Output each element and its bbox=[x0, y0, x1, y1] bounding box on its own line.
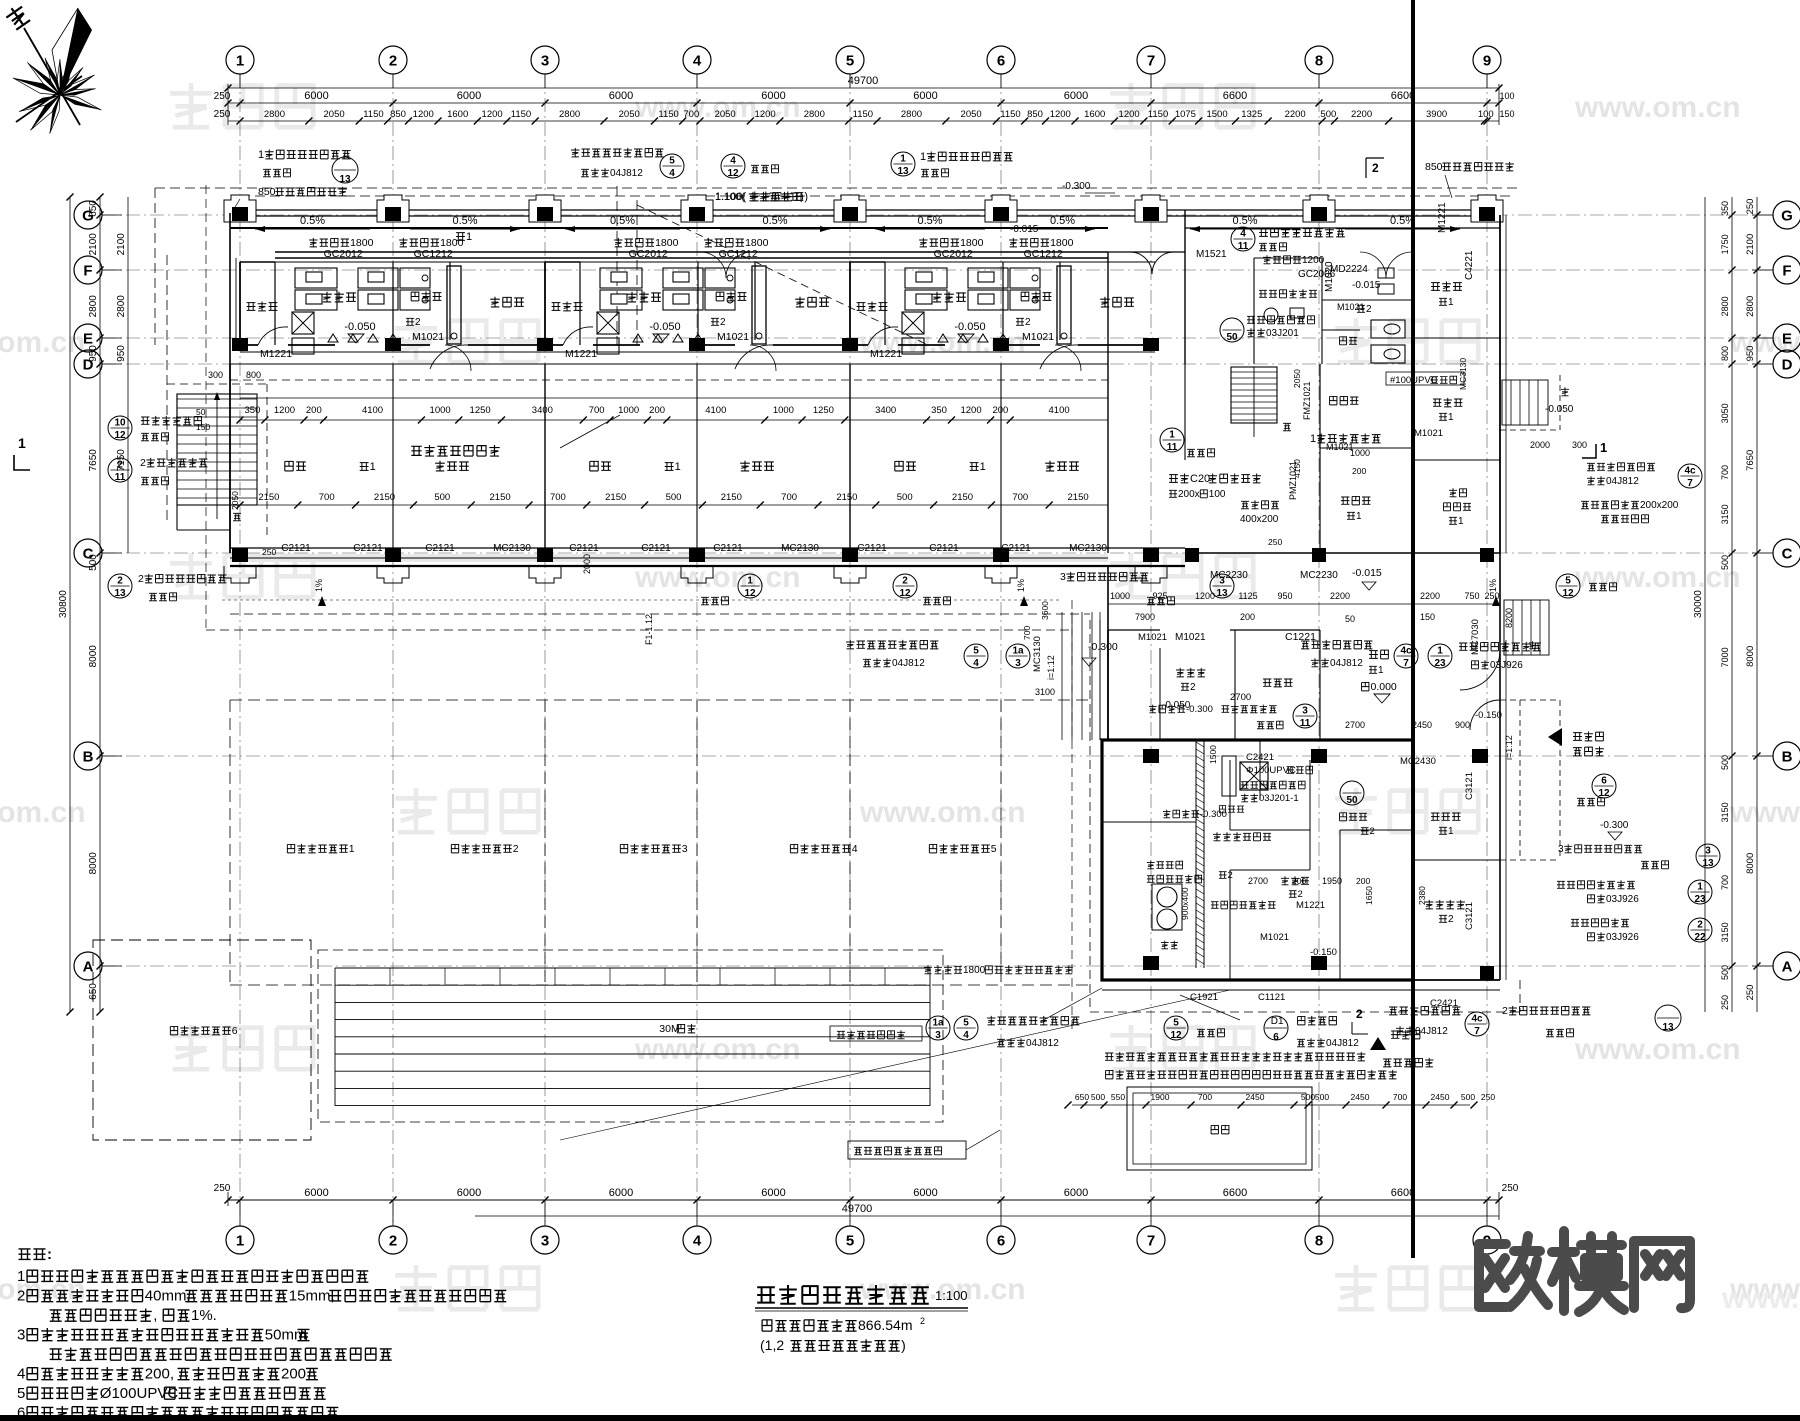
svg-text:www.om.cn: www.om.cn bbox=[634, 1033, 801, 1066]
bedroom/activity rooms bbox=[229, 364, 231, 553]
svg-text:8000: 8000 bbox=[88, 852, 99, 875]
svg-text:D: D bbox=[1782, 356, 1793, 373]
svg-text:100: 100 bbox=[1499, 91, 1514, 101]
svg-text:300: 300 bbox=[208, 370, 223, 380]
svg-text:350: 350 bbox=[245, 405, 261, 416]
svg-text:3: 3 bbox=[1060, 571, 1066, 583]
right lower annotations bbox=[1557, 881, 1565, 888]
corridor top wall bbox=[230, 209, 1500, 211]
svg-text:6000: 6000 bbox=[457, 90, 481, 102]
svg-text:500: 500 bbox=[1720, 965, 1730, 980]
ramp strip left of lower wing bbox=[1061, 612, 1063, 740]
interior dim row lower bbox=[240, 504, 1108, 506]
svg-text:1800: 1800 bbox=[963, 965, 986, 976]
right exterior wall double lines bbox=[1505, 215, 1507, 553]
svg-text:FMZ1021: FMZ1021 bbox=[1302, 381, 1312, 420]
svg-text:700: 700 bbox=[1022, 626, 1032, 640]
leader lines bottom bbox=[1040, 988, 1102, 1022]
svg-text:100: 100 bbox=[1209, 489, 1226, 500]
svg-text:150: 150 bbox=[1420, 612, 1435, 622]
kitchen interior walls bbox=[1195, 740, 1197, 968]
svg-text:5: 5 bbox=[669, 156, 675, 167]
svg-text:13: 13 bbox=[1216, 588, 1228, 599]
svg-text:C2121: C2121 bbox=[929, 543, 959, 554]
svg-text:2800: 2800 bbox=[1745, 296, 1756, 317]
svg-text:5: 5 bbox=[846, 52, 854, 69]
svg-text:1200: 1200 bbox=[1050, 109, 1071, 120]
svg-text:49700: 49700 bbox=[848, 75, 879, 87]
svg-text:C4221: C4221 bbox=[1464, 250, 1475, 280]
svg-text:2380: 2380 bbox=[1417, 886, 1427, 905]
svg-text:950: 950 bbox=[1745, 346, 1756, 362]
svg-text:4: 4 bbox=[1240, 229, 1246, 240]
entry hall labels bbox=[1369, 651, 1378, 659]
svg-text:23: 23 bbox=[1694, 894, 1706, 905]
svg-text:0.5%: 0.5% bbox=[1232, 215, 1257, 227]
svg-text:3: 3 bbox=[1015, 658, 1021, 669]
svg-text:1000: 1000 bbox=[1110, 591, 1130, 601]
svg-text:350: 350 bbox=[1720, 201, 1730, 216]
svg-text:M1021: M1021 bbox=[717, 331, 749, 343]
svg-text:1: 1 bbox=[18, 435, 26, 451]
svg-text:E: E bbox=[1782, 330, 1792, 347]
svg-text:1: 1 bbox=[747, 576, 753, 587]
svg-text:2: 2 bbox=[138, 573, 144, 585]
svg-text:8000: 8000 bbox=[88, 645, 99, 668]
notes block 附注 bbox=[19, 1249, 31, 1260]
svg-text:2: 2 bbox=[1190, 682, 1196, 693]
svg-text:2150: 2150 bbox=[490, 492, 511, 503]
svg-text:2050: 2050 bbox=[715, 109, 736, 120]
svg-text:250: 250 bbox=[214, 1183, 231, 1194]
svg-text:2800: 2800 bbox=[559, 109, 580, 120]
svg-text:0.5%: 0.5% bbox=[452, 215, 477, 227]
svg-text:1750: 1750 bbox=[1720, 234, 1730, 254]
svg-text:GC1212: GC1212 bbox=[1024, 248, 1063, 260]
svg-text:2050: 2050 bbox=[961, 109, 982, 120]
svg-text:4: 4 bbox=[852, 843, 858, 855]
svg-text:C2121: C2121 bbox=[569, 543, 599, 554]
svg-text:2: 2 bbox=[1298, 889, 1303, 900]
svg-text:1%: 1% bbox=[314, 579, 324, 592]
inner corridor lines D-E bbox=[230, 363, 1108, 365]
svg-text:3150: 3150 bbox=[1720, 504, 1730, 524]
svg-text:04J812: 04J812 bbox=[1606, 476, 1639, 487]
svg-text:2: 2 bbox=[902, 576, 908, 587]
svg-text:7: 7 bbox=[1687, 478, 1693, 489]
svg-text:5: 5 bbox=[17, 1385, 25, 1402]
svg-text:C2421: C2421 bbox=[1246, 752, 1274, 763]
porch steps right wing east bbox=[1503, 600, 1505, 655]
svg-text:1: 1 bbox=[1448, 826, 1454, 837]
svg-text:3: 3 bbox=[1302, 706, 1308, 717]
svg-text:1200: 1200 bbox=[755, 109, 776, 120]
concrete sill annotation bbox=[1169, 475, 1178, 483]
svg-text:1200: 1200 bbox=[274, 405, 295, 416]
svg-text:9: 9 bbox=[1483, 52, 1491, 69]
svg-text:M1021: M1021 bbox=[1414, 428, 1443, 439]
svg-text:12: 12 bbox=[1598, 788, 1610, 799]
svg-text:200x200: 200x200 bbox=[1640, 500, 1679, 511]
svg-text:700: 700 bbox=[1720, 465, 1730, 480]
entrance door arcs right wall bbox=[1460, 650, 1500, 690]
hall dim row bbox=[1108, 603, 1500, 605]
svg-text:1200: 1200 bbox=[482, 109, 503, 120]
svg-text:2050: 2050 bbox=[1292, 369, 1302, 388]
svg-text:200: 200 bbox=[1352, 466, 1366, 476]
svg-text:04J812: 04J812 bbox=[1026, 1038, 1059, 1049]
svg-text:700: 700 bbox=[1012, 492, 1028, 503]
big dashed play area bottom-left bbox=[93, 940, 311, 1140]
door arcs on corridor openings bbox=[445, 345, 471, 371]
svg-text:2: 2 bbox=[1025, 317, 1031, 328]
svg-text:4: 4 bbox=[973, 658, 979, 669]
svg-text:6: 6 bbox=[1273, 1032, 1279, 1043]
svg-text:8200: 8200 bbox=[1504, 608, 1514, 628]
svg-text:-0.150: -0.150 bbox=[1475, 710, 1502, 721]
svg-text:MC2130: MC2130 bbox=[493, 543, 531, 554]
svg-text:2150: 2150 bbox=[836, 492, 857, 503]
svg-text:-0.015: -0.015 bbox=[1352, 280, 1381, 291]
svg-text:700: 700 bbox=[1393, 1092, 1407, 1102]
svg-text:1a: 1a bbox=[932, 1018, 944, 1029]
interior staircase grid 7-8 bbox=[1231, 367, 1277, 423]
svg-text:2: 2 bbox=[720, 317, 726, 328]
left dimension columns bbox=[69, 197, 71, 1012]
svg-text:C1121: C1121 bbox=[1258, 992, 1285, 1003]
kitchen block bold outline bbox=[1102, 740, 1413, 980]
svg-text:500: 500 bbox=[666, 492, 682, 503]
svg-text:): ) bbox=[800, 191, 804, 203]
svg-text:2: 2 bbox=[140, 457, 146, 469]
sand pit bbox=[1127, 1087, 1312, 1170]
svg-text:500: 500 bbox=[1315, 1092, 1329, 1102]
ramp right side dashed bbox=[1500, 699, 1560, 701]
svg-text:2100: 2100 bbox=[1745, 234, 1756, 255]
svg-text:M1021: M1021 bbox=[412, 331, 444, 343]
svg-text:1: 1 bbox=[980, 461, 986, 473]
svg-text:500: 500 bbox=[1320, 109, 1336, 120]
svg-text:40mm,: 40mm, bbox=[145, 1288, 191, 1305]
svg-text:200: 200 bbox=[306, 405, 322, 416]
svg-text:2450: 2450 bbox=[1412, 720, 1432, 730]
svg-text:3050: 3050 bbox=[1720, 403, 1730, 423]
bedroom labels bbox=[285, 461, 293, 471]
svg-text:1: 1 bbox=[900, 154, 906, 165]
svg-text:-0.300: -0.300 bbox=[1200, 809, 1227, 820]
svg-text:2450: 2450 bbox=[1246, 1092, 1265, 1102]
svg-text:4: 4 bbox=[963, 1030, 969, 1041]
svg-text:200x: 200x bbox=[1178, 489, 1200, 500]
svg-text:03J926: 03J926 bbox=[1606, 932, 1639, 943]
svg-text:1150: 1150 bbox=[1148, 109, 1168, 120]
svg-text:1200: 1200 bbox=[960, 405, 981, 416]
svg-text:-0.015: -0.015 bbox=[1352, 567, 1382, 579]
svg-text:2: 2 bbox=[1502, 1005, 1508, 1017]
svg-text:6: 6 bbox=[1601, 776, 1607, 787]
svg-text:700: 700 bbox=[781, 492, 797, 503]
svg-text:1: 1 bbox=[370, 461, 376, 473]
svg-text:M1021: M1021 bbox=[1022, 331, 1054, 343]
svg-text:550: 550 bbox=[1111, 1092, 1125, 1102]
svg-text:5: 5 bbox=[963, 1018, 969, 1029]
svg-text:30800: 30800 bbox=[58, 590, 69, 618]
watermark tiles bbox=[170, 83, 313, 127]
svg-text:1: 1 bbox=[920, 151, 926, 163]
svg-text:150: 150 bbox=[1499, 109, 1514, 119]
svg-text:M1021: M1021 bbox=[1138, 632, 1167, 643]
svg-text:250: 250 bbox=[214, 91, 231, 102]
svg-text:200: 200 bbox=[992, 405, 1008, 416]
logo 欧模网 (hand-drawn strokes) bbox=[1479, 1231, 1690, 1312]
svg-text:1200: 1200 bbox=[413, 109, 434, 120]
svg-text:C: C bbox=[1782, 545, 1793, 562]
track surround dashed bbox=[318, 950, 943, 1122]
svg-text:7: 7 bbox=[1474, 1026, 1480, 1037]
svg-text:03J201-1: 03J201-1 bbox=[1259, 793, 1299, 804]
svg-text:6: 6 bbox=[17, 1405, 25, 1421]
svg-text:www.om.cn: www.om.cn bbox=[1574, 91, 1741, 124]
svg-text:950: 950 bbox=[116, 345, 127, 362]
svg-text:1%.: 1%. bbox=[191, 1307, 217, 1324]
right wing C line wall bbox=[1108, 547, 1185, 549]
window labels row bbox=[309, 238, 317, 247]
svg-text:650: 650 bbox=[1075, 1092, 1089, 1102]
svg-text:4: 4 bbox=[730, 156, 736, 167]
sandpit dim row bbox=[1072, 1104, 1470, 1106]
svg-text:6: 6 bbox=[997, 52, 1005, 69]
svg-text:200: 200 bbox=[649, 405, 665, 416]
svg-text:2: 2 bbox=[1448, 914, 1454, 925]
svg-text:700: 700 bbox=[550, 492, 566, 503]
svg-text:2800: 2800 bbox=[264, 109, 285, 120]
svg-text:500: 500 bbox=[88, 554, 99, 571]
staff toilet block grid7-8 bbox=[1108, 251, 1185, 253]
svg-text:250: 250 bbox=[1502, 1183, 1519, 1194]
svg-text:4c: 4c bbox=[1471, 1014, 1483, 1025]
svg-text:2050: 2050 bbox=[230, 491, 240, 510]
svg-text:3: 3 bbox=[1558, 844, 1564, 855]
svg-text:2: 2 bbox=[1370, 826, 1375, 837]
svg-text:2: 2 bbox=[415, 317, 421, 328]
svg-text:11: 11 bbox=[1167, 442, 1178, 453]
wing bottom wall bbox=[1102, 979, 1500, 981]
svg-text:500: 500 bbox=[1720, 755, 1730, 770]
svg-text:1200: 1200 bbox=[1119, 109, 1140, 120]
svg-text:C1221: C1221 bbox=[1285, 631, 1316, 643]
svg-text:2150: 2150 bbox=[952, 492, 973, 503]
svg-text:MC3130: MC3130 bbox=[1032, 636, 1043, 672]
svg-text:2200: 2200 bbox=[1420, 591, 1440, 601]
svg-text:5: 5 bbox=[1565, 576, 1571, 587]
svg-text:2: 2 bbox=[1372, 161, 1379, 175]
svg-text:0.5%: 0.5% bbox=[762, 215, 787, 227]
svg-text:700: 700 bbox=[589, 405, 605, 416]
svg-text:30000: 30000 bbox=[1693, 590, 1704, 618]
svg-text:7: 7 bbox=[1403, 658, 1409, 669]
svg-text:500: 500 bbox=[1461, 1092, 1475, 1102]
svg-text:3: 3 bbox=[935, 1030, 941, 1041]
svg-text:GC2012: GC2012 bbox=[324, 248, 363, 260]
svg-text:1: 1 bbox=[1310, 433, 1316, 445]
svg-text:250: 250 bbox=[1720, 995, 1730, 1010]
svg-text:2150: 2150 bbox=[721, 492, 742, 503]
svg-text:(1,2: (1,2 bbox=[760, 1337, 784, 1353]
svg-text:1200: 1200 bbox=[1302, 255, 1325, 266]
svg-text:1: 1 bbox=[236, 52, 244, 69]
svg-text:2800: 2800 bbox=[1720, 296, 1730, 316]
svg-text:850: 850 bbox=[1425, 161, 1443, 173]
svg-text:900: 900 bbox=[1455, 720, 1470, 730]
svg-text:500: 500 bbox=[1720, 555, 1730, 570]
svg-text:850: 850 bbox=[390, 109, 406, 120]
svg-text:2800: 2800 bbox=[804, 109, 825, 120]
svg-text:13: 13 bbox=[1702, 858, 1714, 869]
svg-text:C2121: C2121 bbox=[713, 543, 743, 554]
svg-text:www.om.cn: www.om.cn bbox=[0, 796, 86, 829]
svg-text:49700: 49700 bbox=[842, 1203, 873, 1215]
svg-text:2: 2 bbox=[1228, 870, 1233, 881]
svg-text:6000: 6000 bbox=[913, 90, 937, 102]
svg-text:4100: 4100 bbox=[362, 405, 383, 416]
svg-text:GC1212: GC1212 bbox=[414, 248, 453, 260]
svg-text:2450: 2450 bbox=[1431, 1092, 1450, 1102]
svg-text:2150: 2150 bbox=[374, 492, 395, 503]
svg-text:1150: 1150 bbox=[511, 109, 531, 120]
svg-text:-0.050: -0.050 bbox=[1162, 700, 1191, 711]
svg-text:A: A bbox=[83, 958, 94, 975]
svg-text:8: 8 bbox=[1315, 1232, 1323, 1249]
svg-text:MC2430: MC2430 bbox=[1400, 756, 1436, 767]
svg-text:200,: 200, bbox=[145, 1366, 174, 1383]
bottom border bar bbox=[0, 1415, 1800, 1421]
svg-text:04J812: 04J812 bbox=[1326, 1038, 1359, 1049]
svg-text:A: A bbox=[1782, 958, 1793, 975]
svg-text:3150: 3150 bbox=[1720, 802, 1730, 822]
svg-text:6000: 6000 bbox=[609, 1187, 633, 1199]
svg-text:1: 1 bbox=[466, 231, 472, 243]
svg-text:350: 350 bbox=[931, 405, 947, 416]
svg-text:650: 650 bbox=[88, 200, 99, 217]
svg-text:2: 2 bbox=[117, 576, 123, 587]
svg-text:2050: 2050 bbox=[324, 109, 345, 120]
svg-text:i=1:12: i=1:12 bbox=[1046, 655, 1056, 680]
svg-text:www.om.cn: www.om.cn bbox=[1574, 1033, 1741, 1066]
svg-text:,: , bbox=[153, 1307, 157, 1324]
svg-text:C2121: C2121 bbox=[857, 543, 887, 554]
svg-text:200: 200 bbox=[1356, 876, 1370, 886]
svg-text:13: 13 bbox=[114, 588, 126, 599]
svg-text:www.om.cn: www.om.cn bbox=[0, 326, 86, 359]
svg-text:100: 100 bbox=[1478, 109, 1494, 120]
svg-text:5: 5 bbox=[973, 646, 979, 657]
kindergarten entrance arrow bbox=[1548, 728, 1562, 746]
svg-text:1: 1 bbox=[349, 843, 355, 855]
svg-text:B: B bbox=[83, 748, 94, 765]
svg-text:M1221: M1221 bbox=[565, 348, 597, 360]
svg-text:7: 7 bbox=[1147, 52, 1155, 69]
svg-text:6: 6 bbox=[997, 1232, 1005, 1249]
svg-text:1: 1 bbox=[258, 149, 264, 161]
svg-text:1%: 1% bbox=[1016, 579, 1026, 592]
annotations under C wall bbox=[108, 574, 132, 598]
svg-text:1600: 1600 bbox=[1084, 109, 1105, 120]
svg-text:7650: 7650 bbox=[1745, 450, 1756, 471]
svg-text:2800: 2800 bbox=[901, 109, 922, 120]
svg-text:MC2230: MC2230 bbox=[1300, 570, 1338, 581]
svg-text:04J812: 04J812 bbox=[1330, 658, 1363, 669]
svg-text:250: 250 bbox=[1745, 199, 1756, 215]
svg-text:2: 2 bbox=[117, 460, 123, 471]
svg-text:3600: 3600 bbox=[1040, 601, 1050, 620]
svg-text:M1221: M1221 bbox=[1437, 202, 1448, 233]
svg-text:6: 6 bbox=[232, 1025, 238, 1037]
dumbwaiter shaft bbox=[1240, 762, 1268, 790]
svg-text:1650: 1650 bbox=[1364, 886, 1374, 905]
svg-text:6000: 6000 bbox=[1064, 1187, 1088, 1199]
svg-text:M1021: M1021 bbox=[1260, 932, 1289, 943]
svg-text:250: 250 bbox=[1268, 537, 1282, 547]
svg-text:250: 250 bbox=[214, 109, 231, 120]
kitchen columns bbox=[1143, 749, 1159, 763]
svg-text:250: 250 bbox=[1481, 1092, 1495, 1102]
svg-text:4100: 4100 bbox=[705, 405, 726, 416]
svg-text:1a: 1a bbox=[1012, 646, 1024, 657]
right side steps/ramp D-C bbox=[1501, 380, 1503, 425]
svg-text:2800: 2800 bbox=[88, 295, 99, 318]
svg-text:2: 2 bbox=[17, 1288, 25, 1305]
svg-text:7900: 7900 bbox=[1135, 612, 1155, 622]
heavy vertical section line bbox=[1411, 0, 1415, 1258]
svg-text:1600: 1600 bbox=[447, 109, 468, 120]
svg-text:C2121: C2121 bbox=[281, 543, 311, 554]
svg-text:F: F bbox=[1782, 262, 1791, 279]
svg-text:2100: 2100 bbox=[116, 233, 127, 256]
svg-text:6600: 6600 bbox=[1223, 1187, 1247, 1199]
svg-text:11: 11 bbox=[1300, 718, 1311, 729]
svg-text:7650: 7650 bbox=[88, 449, 99, 472]
right grid bubbles G-A bbox=[1773, 201, 1800, 229]
svg-text:5: 5 bbox=[846, 1232, 854, 1249]
svg-text:1150: 1150 bbox=[363, 109, 383, 120]
svg-text:866.54m: 866.54m bbox=[858, 1317, 912, 1333]
svg-text:1: 1 bbox=[1356, 511, 1362, 522]
svg-text:50: 50 bbox=[1346, 795, 1358, 806]
right rooms of wing bbox=[1431, 813, 1439, 820]
svg-text:500: 500 bbox=[897, 492, 913, 503]
svg-text:4: 4 bbox=[669, 168, 675, 179]
svg-text:50: 50 bbox=[196, 407, 206, 417]
hall walls bbox=[1108, 629, 1160, 631]
playground dashed partitions bbox=[230, 699, 1090, 701]
svg-text:2150: 2150 bbox=[258, 492, 279, 503]
svg-text:2150: 2150 bbox=[605, 492, 626, 503]
svg-text:3400: 3400 bbox=[875, 405, 896, 416]
svg-text:750: 750 bbox=[1464, 591, 1479, 601]
svg-text:0.5%: 0.5% bbox=[917, 215, 942, 227]
svg-text:3400: 3400 bbox=[532, 405, 553, 416]
unit room labels bbox=[247, 303, 256, 311]
svg-text:22: 22 bbox=[1694, 932, 1706, 943]
bottom grid bubbles 1-9 bbox=[226, 1226, 254, 1254]
svg-text:GC2012: GC2012 bbox=[934, 248, 973, 260]
svg-text:-0.300: -0.300 bbox=[1088, 641, 1118, 653]
svg-text:1150: 1150 bbox=[1000, 109, 1020, 120]
staff toilet annotation bbox=[1231, 227, 1255, 251]
svg-text:2000: 2000 bbox=[1530, 440, 1550, 450]
svg-text:1: 1 bbox=[17, 1268, 25, 1285]
svg-text:MC2130: MC2130 bbox=[1069, 543, 1107, 554]
